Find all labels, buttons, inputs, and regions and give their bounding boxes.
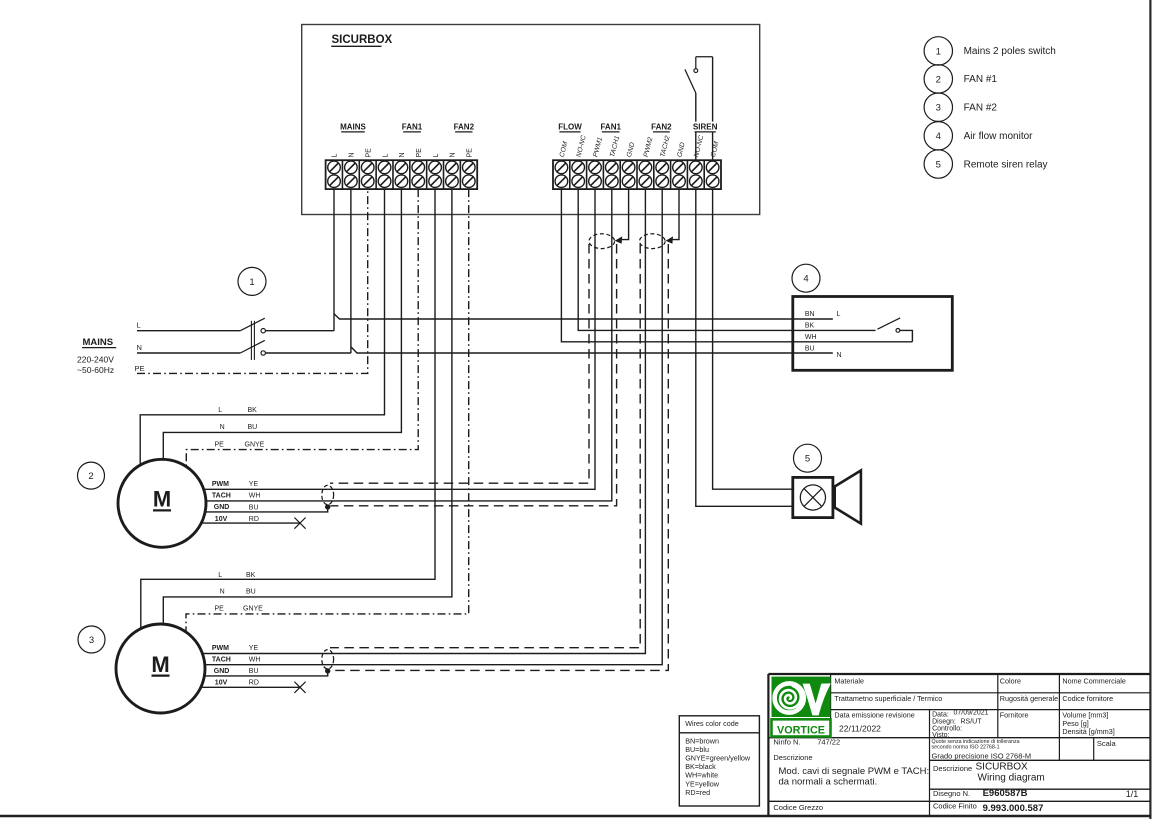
terminal block right (FLOW FAN1 FAN2 SIREN) body	[553, 160, 721, 189]
group label SIREN right	[693, 123, 718, 132]
svg-text:Data emissione revisione: Data emissione revisione	[834, 710, 914, 719]
motor M3 body	[116, 624, 205, 713]
svg-text:Densità [g/mm3]: Densità [g/mm3]	[1062, 727, 1114, 736]
wire FAN1 L to motor M2	[140, 189, 384, 465]
svg-text:TACH1: TACH1	[609, 135, 621, 158]
wire flow contact loop	[900, 330, 913, 341]
svg-text:NO-NC: NO-NC	[693, 135, 705, 158]
svg-text:Visto:: Visto:	[932, 732, 949, 739]
svg-text:FLOW: FLOW	[558, 123, 582, 132]
callout circle 1 mains switch	[238, 267, 266, 295]
svg-text:PWM1: PWM1	[592, 136, 604, 158]
callout circle 2 fan1	[78, 462, 105, 489]
no-connect X M2	[294, 518, 305, 529]
svg-text:E960587B: E960587B	[983, 788, 1028, 799]
svg-text:N: N	[349, 152, 356, 157]
svg-text:Grado precisione ISO 2768-M: Grado precisione ISO 2768-M	[932, 752, 1032, 761]
label N monitor	[837, 352, 842, 359]
wire SIREN NO-NC to siren	[696, 189, 793, 506]
svg-text:VORTICE: VORTICE	[777, 724, 825, 736]
wire FAN1 TACH1 to motor M2	[206, 189, 612, 501]
svg-text:Codice fornitore: Codice fornitore	[1062, 694, 1113, 703]
label M2 N BU	[220, 424, 258, 431]
svg-text:da normali a schermati.: da normali a schermati.	[779, 776, 878, 787]
cable shield ellipse 1	[589, 234, 615, 249]
svg-text:GND: GND	[626, 142, 636, 158]
svg-text:FAN #2: FAN #2	[964, 103, 998, 114]
group label FLOW right	[558, 123, 582, 132]
svg-text:TACH: TACH	[212, 493, 231, 500]
label L mains	[137, 321, 141, 330]
svg-text:RS/UT: RS/UT	[961, 718, 983, 725]
svg-text:1: 1	[249, 277, 254, 288]
terminal FLOW COM pin	[555, 141, 569, 188]
svg-text:Trattametno superficiale / Ter: Trattametno superficiale / Termico	[834, 694, 942, 703]
wire siren COM up	[712, 57, 714, 160]
svg-text:PE: PE	[416, 148, 423, 158]
label M3 L BK	[218, 572, 255, 579]
legend item 5	[924, 150, 1047, 178]
svg-text:Colore: Colore	[1000, 677, 1021, 686]
svg-text:NO-NC: NO-NC	[576, 135, 588, 158]
terminal FAN2 PWM2 pin	[639, 136, 654, 187]
svg-text:RD: RD	[249, 516, 259, 523]
label M3 PE GNYE	[215, 606, 264, 613]
switch S1 pole L blade	[240, 318, 264, 331]
label M3 TACH WH	[212, 656, 261, 663]
wire FAN1 GND to shield 1	[621, 189, 629, 240]
svg-text:Scala: Scala	[1097, 739, 1117, 748]
svg-text:Wires color code: Wires color code	[685, 719, 739, 728]
label SICURBOX	[331, 34, 392, 46]
wire FAN2 L to motor M3	[141, 189, 435, 629]
label M2 GND BU	[214, 504, 259, 511]
svg-text:2: 2	[88, 471, 93, 482]
terminal MAINS L pin	[328, 154, 341, 188]
terminal SIREN COM pin	[706, 141, 720, 188]
terminal MAINS N pin	[345, 152, 358, 187]
terminal SIREN NO-NC pin	[690, 135, 706, 188]
cable shield ellipse M3	[322, 650, 334, 669]
svg-text:FAN1: FAN1	[402, 123, 423, 132]
svg-text:Remote siren relay: Remote siren relay	[964, 159, 1048, 170]
svg-text:PE: PE	[365, 148, 372, 158]
wire SIREN COM to siren	[713, 189, 793, 489]
svg-text:Air flow monitor: Air flow monitor	[964, 131, 1034, 142]
cable shield ellipse M2	[322, 485, 334, 504]
svg-text:N: N	[450, 152, 457, 157]
motor M2 body	[118, 459, 206, 547]
svg-text:PE: PE	[135, 364, 145, 373]
svg-text:FAN1: FAN1	[600, 123, 621, 132]
svg-text:PE: PE	[466, 148, 473, 158]
switch flow contact	[896, 329, 900, 333]
label SIREN white backing	[695, 122, 717, 133]
label M3 GND BU	[214, 668, 259, 675]
svg-text:PWM: PWM	[212, 645, 229, 652]
callout circle 5 siren	[794, 444, 822, 472]
svg-text:5: 5	[936, 159, 941, 170]
svg-text:SICURBOX: SICURBOX	[332, 34, 393, 46]
wire FAN1 N to motor M2	[163, 189, 401, 459]
switch flow blade	[878, 318, 901, 329]
VORTICE wordmark	[772, 719, 831, 736]
switch S1 coupling	[251, 321, 254, 360]
svg-text:N: N	[220, 589, 225, 596]
svg-text:L: L	[137, 321, 141, 330]
switch S1 pole N blade	[240, 340, 264, 353]
label M2 PWM YE	[212, 481, 259, 488]
svg-text:1/1: 1/1	[1126, 789, 1139, 799]
title block texts	[773, 677, 1138, 815]
legend item 2	[924, 65, 997, 93]
group label FAN2 right	[651, 123, 672, 132]
wire FLOW COM to monitor WH	[561, 189, 912, 342]
wire M2 GND to shield dot	[205, 507, 328, 512]
callout circle 4 air flow monitor	[792, 264, 820, 292]
terminal FAN1 PWM1 pin	[589, 136, 604, 187]
svg-text:RD: RD	[249, 680, 259, 687]
svg-text:L: L	[382, 154, 389, 158]
svg-text:SIREN: SIREN	[693, 123, 718, 132]
svg-text:4: 4	[803, 274, 808, 285]
wire M2 10V stub	[201, 522, 300, 524]
svg-text:BK: BK	[805, 323, 815, 330]
svg-text:GNYE: GNYE	[245, 442, 265, 449]
shield dashed run cable1 right	[331, 244, 617, 506]
svg-text:Materiale: Materiale	[834, 677, 864, 686]
svg-text:YE: YE	[249, 481, 259, 488]
group label FAN2	[454, 123, 475, 132]
terminal FAN2 L pin	[429, 154, 442, 188]
wire FAN1 PWM1 to motor M2	[204, 189, 595, 489]
svg-text:Wiring diagram: Wiring diagram	[978, 772, 1045, 783]
wire FAN1 PE to motor M2	[186, 189, 418, 467]
wire siren NO-NC up	[695, 93, 697, 160]
svg-text:Rugosità generale: Rugosità generale	[1000, 694, 1058, 703]
wire FLOW NO-NC to monitor BK	[578, 189, 875, 330]
page bottom border	[0, 815, 1152, 818]
svg-text:YE: YE	[249, 645, 259, 652]
svg-text:FAN2: FAN2	[454, 123, 475, 132]
label M2 TACH WH	[212, 493, 261, 500]
svg-text:Codice Finito: Codice Finito	[933, 801, 977, 810]
shield dashed run cable2 right	[331, 244, 669, 670]
svg-text:N: N	[137, 343, 142, 352]
switch S1 pole L contact	[261, 329, 265, 333]
wire M3 10V stub	[201, 686, 301, 688]
group label SIREN text	[693, 123, 718, 132]
svg-text:WH: WH	[805, 334, 817, 341]
svg-text:PE: PE	[215, 442, 225, 449]
svg-text:GND: GND	[676, 142, 686, 158]
svg-text:PWM: PWM	[212, 481, 229, 488]
svg-text:PE: PE	[215, 606, 225, 613]
svg-text:BU: BU	[249, 668, 259, 675]
svg-text:3: 3	[89, 635, 94, 646]
label L monitor	[837, 311, 841, 318]
siren horn	[835, 471, 861, 524]
svg-text:M: M	[151, 652, 169, 677]
svg-text:Disegn:: Disegn:	[932, 718, 956, 725]
svg-text:FAN2: FAN2	[651, 123, 672, 132]
svg-text:BN: BN	[805, 311, 815, 318]
svg-text:1: 1	[936, 46, 941, 57]
group label FAN1	[402, 123, 423, 132]
svg-text:10V: 10V	[215, 680, 228, 687]
group label MAINS	[340, 123, 366, 132]
svg-text:TACH2: TACH2	[660, 135, 672, 158]
label WH	[805, 334, 817, 341]
terminal FAN2 TACH2 pin	[656, 135, 672, 188]
svg-text:BU: BU	[246, 589, 256, 596]
wire MAINS L terminal to switch contact	[265, 189, 334, 331]
svg-text:PWM2: PWM2	[643, 136, 655, 158]
label N mains	[137, 343, 142, 352]
svg-text:BU: BU	[248, 424, 258, 431]
wires color code table	[679, 716, 759, 806]
terminal FAN2 N pin	[446, 152, 459, 187]
svg-text:Ninfo N.: Ninfo N.	[773, 737, 800, 746]
wire FAN2 GND to shield 2	[672, 189, 679, 240]
label M2 10V RD	[215, 516, 259, 523]
svg-text:GNYE: GNYE	[243, 606, 263, 613]
svg-text:L: L	[218, 407, 222, 414]
shield dot M2	[325, 504, 330, 509]
callout circle 3 fan2	[78, 626, 105, 653]
SICURBOX enclosure box	[302, 25, 760, 215]
shield dashed run cable1 left	[330, 244, 589, 483]
svg-text:N: N	[837, 352, 842, 359]
svg-text:Mains 2 poles switch: Mains 2 poles switch	[964, 46, 1056, 57]
wire node L branch to flow monitor	[334, 314, 833, 319]
terminal FAN1 N pin	[395, 152, 408, 187]
legend item 1	[924, 37, 1056, 65]
legend item 3	[924, 93, 997, 121]
svg-text:9.993.000.587: 9.993.000.587	[983, 803, 1044, 814]
svg-text:GND: GND	[214, 504, 230, 511]
svg-text:L: L	[433, 154, 440, 158]
no-connect X M3	[294, 682, 305, 693]
svg-text:MAINS: MAINS	[83, 337, 114, 348]
page right border	[1149, 0, 1151, 819]
label M2 PE GNYE	[215, 442, 265, 449]
wire node N branch to flow monitor	[351, 347, 833, 353]
svg-text:L: L	[218, 572, 222, 579]
VORTICE logo mark	[772, 677, 831, 717]
svg-text:3: 3	[936, 103, 941, 114]
svg-text:07/09/2021: 07/09/2021	[954, 709, 989, 716]
svg-text:BU: BU	[805, 346, 815, 353]
svg-text:2: 2	[936, 74, 941, 85]
svg-text:WH: WH	[249, 656, 261, 663]
svg-text:L: L	[837, 311, 841, 318]
svg-text:5: 5	[805, 454, 810, 465]
shield dashed run cable2 left	[330, 244, 640, 648]
svg-text:747/22: 747/22	[817, 737, 840, 746]
svg-text:M: M	[153, 487, 171, 512]
svg-text:~50-60Hz: ~50-60Hz	[77, 365, 114, 375]
shield arrow 1	[615, 236, 622, 243]
svg-text:Descrizione: Descrizione	[773, 753, 812, 762]
svg-text:BK: BK	[248, 407, 258, 414]
label MAINS source	[77, 337, 116, 375]
svg-text:SICURBOX: SICURBOX	[976, 762, 1029, 773]
svg-text:Codice Grezzo: Codice Grezzo	[773, 803, 823, 812]
svg-text:L: L	[332, 154, 339, 158]
svg-text:FAN #1: FAN #1	[964, 74, 998, 85]
label M3 PWM YE	[212, 645, 259, 652]
svg-text:COM: COM	[710, 141, 721, 158]
svg-text:Descrizione: Descrizione	[933, 764, 972, 773]
terminal FAN1 GND pin	[622, 142, 636, 188]
wire FAN2 PE to motor M3	[186, 189, 469, 633]
wire FAN2 TACH2 to motor M3	[205, 189, 662, 665]
siren lamp circle	[800, 485, 825, 510]
wire MAINS N terminal to switch contact	[265, 189, 351, 353]
wire mains N to switch	[137, 352, 240, 354]
svg-text:RD=red: RD=red	[685, 788, 710, 797]
svg-text:Mod. cavi di segnale PWM e TAC: Mod. cavi di segnale PWM e TACH:	[779, 766, 930, 777]
svg-text:4: 4	[936, 131, 941, 142]
cable shield ellipse 2	[640, 234, 666, 249]
terminal FAN1 L pin	[378, 154, 391, 188]
shield arrow 2	[666, 236, 673, 243]
terminal MAINS PE pin	[361, 148, 374, 188]
wire FAN2 PWM2 to motor M3	[202, 189, 645, 653]
label BU	[805, 346, 815, 353]
air flow monitor box	[793, 297, 953, 371]
legend item 4	[924, 122, 1033, 150]
shield dot M3	[325, 668, 330, 673]
svg-text:TACH: TACH	[212, 656, 231, 663]
switch S1 pole N contact	[261, 351, 265, 355]
svg-text:BU: BU	[249, 504, 259, 511]
label M3 N BU	[220, 589, 256, 596]
label M3 10V RD	[215, 680, 259, 687]
group label FAN1 right	[600, 123, 621, 132]
svg-text:BK: BK	[246, 572, 256, 579]
terminal FAN2 PE pin	[462, 148, 475, 188]
svg-text:Disegno N.: Disegno N.	[933, 789, 970, 798]
label BN	[805, 311, 815, 318]
svg-text:N: N	[399, 152, 406, 157]
svg-text:220-240V: 220-240V	[77, 355, 114, 365]
svg-text:Nome Commerciale: Nome Commerciale	[1062, 677, 1126, 686]
svg-text:N: N	[220, 424, 225, 431]
terminal FAN1 TACH1 pin	[606, 135, 622, 188]
terminal FAN2 GND pin	[673, 142, 687, 188]
label PE mains	[135, 364, 145, 373]
switch siren fixed contact	[694, 57, 698, 73]
wire FAN2 N to motor M3	[163, 189, 452, 624]
siren box	[793, 477, 833, 517]
label BK	[805, 323, 815, 330]
svg-text:GND: GND	[214, 668, 230, 675]
wire MAINS PE dash-dot	[137, 189, 368, 373]
terminal FLOW NO-NC pin	[572, 135, 588, 188]
terminal FAN1 PE pin	[412, 148, 425, 188]
wire siren top link	[696, 56, 713, 58]
svg-text:Data:: Data:	[932, 711, 949, 718]
title block grid	[768, 674, 1150, 816]
label M2 L BK	[218, 407, 257, 414]
svg-text:22/11/2022: 22/11/2022	[839, 724, 881, 734]
svg-text:MAINS: MAINS	[340, 123, 366, 132]
svg-text:secondo norma ISO 22768-1: secondo norma ISO 22768-1	[932, 744, 1000, 750]
svg-text:COM: COM	[559, 141, 570, 158]
terminal block left (MAINS FAN1 FAN2) body	[326, 160, 478, 189]
wire mains L to switch	[137, 330, 240, 332]
svg-text:WH: WH	[249, 493, 261, 500]
svg-text:10V: 10V	[215, 516, 228, 523]
svg-text:Fornitore: Fornitore	[1000, 710, 1029, 719]
switch siren blade	[685, 69, 696, 93]
wire M3 GND to shield dot	[204, 671, 327, 676]
